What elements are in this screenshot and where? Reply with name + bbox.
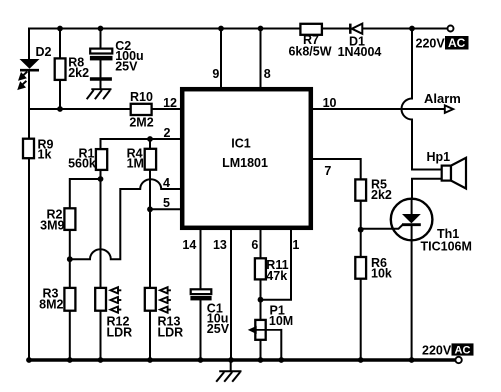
junction pin 8 top rail xyxy=(258,26,264,32)
wire pin 12 line xyxy=(29,108,180,110)
wire thyristor cathode to rail xyxy=(411,240,413,360)
preset P1 xyxy=(255,320,265,340)
svg-text:2k2: 2k2 xyxy=(371,188,392,202)
svg-text:Alarm: Alarm xyxy=(424,91,461,106)
svg-text:10M: 10M xyxy=(269,314,293,328)
wire R11 junction to P1 xyxy=(260,300,262,360)
resistor R8 xyxy=(55,58,66,80)
wire R2 bottom to R3 xyxy=(69,230,71,288)
svg-text:25V: 25V xyxy=(207,322,230,336)
wire R4 column xyxy=(149,139,151,360)
svg-text:10: 10 xyxy=(323,96,337,110)
junction rail Th1 cathode xyxy=(409,357,415,363)
LED D2 xyxy=(20,59,40,70)
ground at pin 13 xyxy=(216,362,241,382)
wire D2/R9 left column xyxy=(28,29,30,361)
resistor R3 xyxy=(64,288,75,311)
svg-text:14: 14 xyxy=(182,238,196,252)
resistor R4 xyxy=(145,149,156,170)
wire R3 to rail xyxy=(69,311,71,360)
svg-text:LDR: LDR xyxy=(158,326,184,340)
junction pin 5 R4 xyxy=(147,206,153,212)
svg-text:8: 8 xyxy=(264,67,271,81)
terminal 220V top right xyxy=(448,26,454,32)
svg-text:4: 4 xyxy=(163,176,170,190)
wire pin 9 xyxy=(220,29,222,88)
diode D1 xyxy=(350,24,362,34)
junction C2 top rail xyxy=(98,26,104,32)
terminal 220V bottom right xyxy=(455,357,461,363)
wire pin 8 xyxy=(260,29,262,88)
wire pin 14 to C1 xyxy=(200,230,202,360)
svg-text:LM1801: LM1801 xyxy=(222,156,268,170)
svg-text:LDR: LDR xyxy=(107,326,133,340)
wire R8 branch xyxy=(59,29,61,110)
svg-text:2M2: 2M2 xyxy=(129,116,153,130)
svg-text:IC1: IC1 xyxy=(231,137,251,151)
svg-text:R10: R10 xyxy=(130,90,153,104)
wire pin 13 to rail xyxy=(230,230,232,360)
alarm output arrow xyxy=(445,105,453,113)
svg-text:1: 1 xyxy=(292,238,299,252)
svg-text:TIC106M: TIC106M xyxy=(421,240,472,254)
junction rail R12 xyxy=(98,357,104,363)
svg-text:10k: 10k xyxy=(371,266,392,280)
junction rail pin 13 ground xyxy=(228,357,234,363)
junction R4 pin 2 line xyxy=(147,136,153,142)
svg-text:1M: 1M xyxy=(127,156,144,170)
wire pin 10 alarm line xyxy=(313,108,444,110)
resistor R2 xyxy=(64,208,75,230)
svg-text:6k8/5W: 6k8/5W xyxy=(288,44,331,58)
svg-text:7: 7 xyxy=(324,164,331,178)
resistor R11 xyxy=(255,258,266,279)
AC inverse block bottom xyxy=(452,343,474,356)
svg-text:220V: 220V xyxy=(416,36,446,50)
wire pin 2 line xyxy=(101,139,181,149)
junction R1 bottom xyxy=(98,176,104,182)
ground under C2 xyxy=(87,79,112,99)
junction R2 bottom xyxy=(67,256,73,262)
svg-text:560k: 560k xyxy=(68,156,96,170)
junction rail R6 xyxy=(358,357,364,363)
svg-text:2k2: 2k2 xyxy=(68,66,89,80)
resistor R5 xyxy=(355,179,366,200)
junction rail P1 bottom xyxy=(258,357,264,363)
svg-text:1N4004: 1N4004 xyxy=(338,45,382,59)
LDR R13 xyxy=(145,288,156,311)
capacitor C1 xyxy=(190,289,211,300)
wire pin 5 line xyxy=(150,208,180,210)
svg-text:13: 13 xyxy=(213,238,227,252)
svg-text:25V: 25V xyxy=(115,60,138,74)
svg-text:9: 9 xyxy=(212,67,219,81)
junction pin 9 top rail xyxy=(218,26,224,32)
resistor R7 xyxy=(300,24,322,35)
svg-text:D2: D2 xyxy=(36,45,52,59)
svg-text:8M2: 8M2 xyxy=(39,297,63,311)
wire pin 4 path with hops xyxy=(70,179,180,259)
wire pin 1 to R11 bottom xyxy=(261,230,292,300)
junction rail R13 xyxy=(147,357,153,363)
LDR R12 xyxy=(95,288,106,311)
svg-text:Hp1: Hp1 xyxy=(427,150,451,164)
junction rail R9 xyxy=(26,357,32,363)
junction R5 R6 gate xyxy=(358,227,364,233)
resistor R10 xyxy=(131,104,152,115)
svg-text:AC: AC xyxy=(448,36,466,50)
wire speaker to thyristor anode xyxy=(412,179,442,199)
resistor R6 xyxy=(355,257,366,279)
wire pin 7 to R5 xyxy=(313,159,361,179)
wire top supply rail xyxy=(29,28,448,30)
speaker Hp1 xyxy=(442,158,466,189)
svg-text:AC: AC xyxy=(455,344,471,356)
wire P1 wiper to rail xyxy=(280,330,282,360)
wire R12 column xyxy=(100,179,102,360)
IC1 box xyxy=(182,89,311,228)
junction R8 top rail xyxy=(57,26,63,32)
resistor R9 xyxy=(23,139,34,159)
svg-text:12: 12 xyxy=(163,96,177,110)
junction rail R3 xyxy=(67,357,73,363)
LED D2 emission arrows xyxy=(19,72,27,89)
junction rail P1 wiper xyxy=(278,357,284,363)
svg-text:220V: 220V xyxy=(422,344,452,358)
resistor R1 xyxy=(96,149,107,170)
wire R6 to rail xyxy=(360,279,362,360)
svg-text:3M9: 3M9 xyxy=(40,218,64,232)
junction R8 pin 12 line xyxy=(57,106,63,112)
wire R1 to R2 link xyxy=(70,170,101,209)
wire pin 6 to R11 xyxy=(260,230,262,300)
svg-text:5: 5 xyxy=(163,196,170,210)
svg-text:6: 6 xyxy=(251,238,258,252)
svg-text:1k: 1k xyxy=(38,148,52,162)
junction R11 P1 xyxy=(258,297,264,303)
wire R5 bottom junction xyxy=(360,201,362,257)
svg-text:47k: 47k xyxy=(266,269,287,283)
svg-text:2: 2 xyxy=(164,126,171,140)
junction rail C1 xyxy=(198,357,204,363)
AC inverse block top xyxy=(445,36,469,50)
junction 220V feed top rail xyxy=(409,26,415,32)
capacitor C2 xyxy=(90,49,113,61)
thyristor Th1 xyxy=(361,199,433,241)
wire C2 branch xyxy=(100,29,102,89)
wire 220V vertical feed right side xyxy=(402,29,442,170)
wire bottom ground rail xyxy=(29,358,456,361)
